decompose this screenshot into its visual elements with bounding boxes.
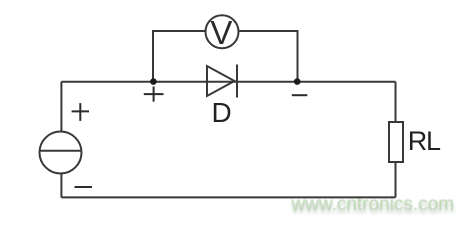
svg-text:V: V	[210, 14, 232, 51]
svg-text:D: D	[212, 97, 232, 128]
svg-text:RL: RL	[408, 126, 441, 156]
